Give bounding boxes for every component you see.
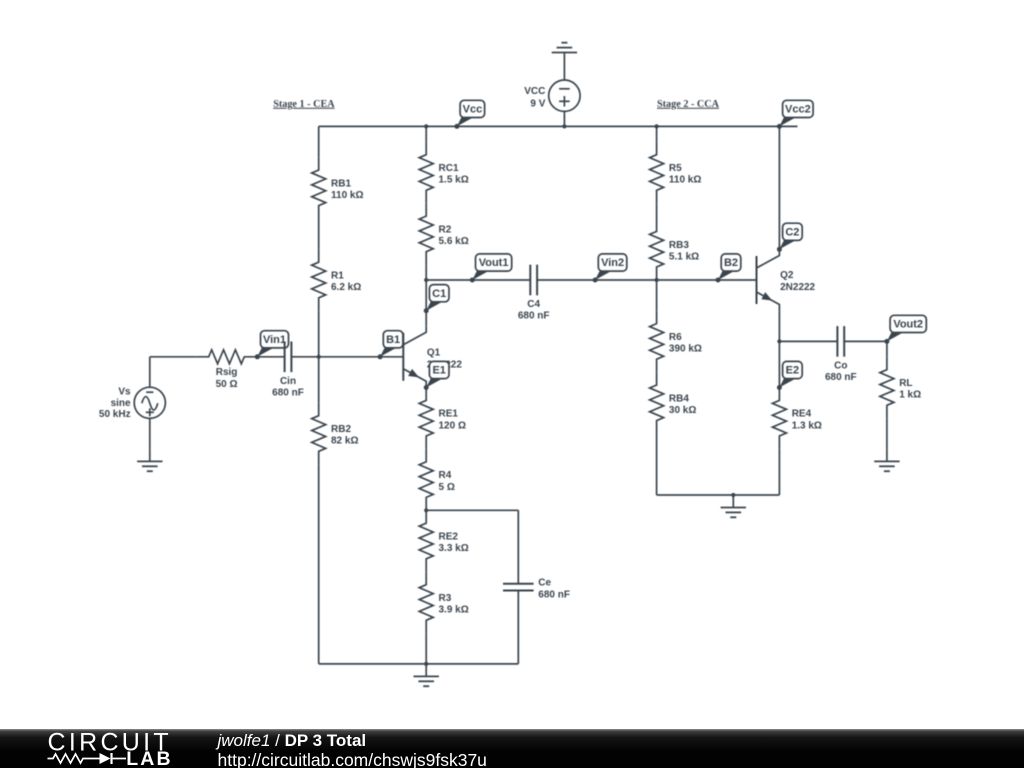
svg-text:3.9 kΩ: 3.9 kΩ	[439, 605, 469, 616]
svg-text:Vout2: Vout2	[893, 319, 923, 331]
svg-text:1 kΩ: 1 kΩ	[899, 390, 921, 401]
svg-text:Vs: Vs	[118, 387, 131, 398]
svg-text:http://circuitlab.com/chswjs9f: http://circuitlab.com/chswjs9fsk37u	[218, 750, 487, 768]
svg-text:Q2: Q2	[780, 270, 794, 281]
svg-text:110 kΩ: 110 kΩ	[669, 175, 702, 186]
svg-text:RE4: RE4	[792, 409, 812, 420]
svg-text:2N2222: 2N2222	[780, 282, 815, 293]
svg-text:50 kHz: 50 kHz	[99, 409, 131, 420]
svg-text:sine: sine	[111, 398, 131, 409]
svg-text:Vin1: Vin1	[263, 334, 286, 346]
svg-text:VCC: VCC	[524, 86, 545, 97]
svg-text:E2: E2	[786, 365, 799, 377]
svg-text:LAB: LAB	[126, 748, 172, 768]
svg-text:Co: Co	[834, 360, 847, 371]
svg-text:680 nF: 680 nF	[518, 311, 550, 322]
svg-text:Q1: Q1	[427, 347, 441, 358]
svg-text:RC1: RC1	[439, 163, 459, 174]
svg-text:390 kΩ: 390 kΩ	[669, 344, 702, 355]
svg-text:5.1 kΩ: 5.1 kΩ	[669, 252, 699, 263]
svg-text:Stage 2 - CCA: Stage 2 - CCA	[657, 99, 720, 110]
svg-text:680 nF: 680 nF	[538, 589, 570, 600]
svg-text:RL: RL	[899, 378, 912, 389]
svg-text:R1: R1	[331, 271, 344, 282]
svg-text:9 V: 9 V	[530, 98, 545, 109]
svg-text:6.2 kΩ: 6.2 kΩ	[331, 282, 361, 293]
svg-text:RE1: RE1	[439, 409, 459, 420]
svg-text:C4: C4	[527, 299, 540, 310]
svg-text:Vout1: Vout1	[479, 257, 509, 269]
svg-text:5.6 kΩ: 5.6 kΩ	[439, 236, 469, 247]
svg-text:82 kΩ: 82 kΩ	[331, 436, 358, 447]
svg-text:Vcc: Vcc	[463, 104, 483, 116]
svg-text:R4: R4	[439, 470, 452, 481]
svg-text:RB2: RB2	[331, 424, 351, 435]
svg-text:50 Ω: 50 Ω	[216, 379, 238, 390]
svg-text:Rsig: Rsig	[216, 367, 238, 378]
svg-text:1.3 kΩ: 1.3 kΩ	[792, 420, 822, 431]
svg-text:680 nF: 680 nF	[272, 387, 304, 398]
svg-text:RB3: RB3	[669, 240, 689, 251]
svg-text:Ce: Ce	[538, 578, 551, 589]
svg-text:110 kΩ: 110 kΩ	[331, 190, 364, 201]
svg-text:R6: R6	[669, 332, 682, 343]
svg-text:1.5 kΩ: 1.5 kΩ	[439, 175, 469, 186]
svg-text:RB1: RB1	[331, 178, 351, 189]
svg-text:E1: E1	[432, 365, 445, 377]
svg-text:Vcc2: Vcc2	[785, 104, 811, 116]
svg-text:jwolfe1 / DP 3 Total: jwolfe1 / DP 3 Total	[216, 731, 367, 750]
svg-text:RB4: RB4	[669, 393, 689, 404]
svg-text:B1: B1	[386, 334, 400, 346]
svg-text:Vin2: Vin2	[601, 257, 624, 269]
svg-text:3.3 kΩ: 3.3 kΩ	[439, 543, 469, 554]
svg-text:C1: C1	[432, 288, 446, 300]
svg-text:120 Ω: 120 Ω	[439, 420, 466, 431]
svg-text:680 nF: 680 nF	[825, 372, 857, 383]
svg-text:RE2: RE2	[439, 532, 459, 543]
svg-text:5 Ω: 5 Ω	[439, 482, 455, 493]
svg-text:B2: B2	[724, 257, 738, 269]
svg-text:C2: C2	[785, 227, 799, 239]
svg-text:Cin: Cin	[280, 376, 296, 387]
svg-text:R2: R2	[439, 224, 452, 235]
svg-text:Stage 1 - CEA: Stage 1 - CEA	[273, 99, 335, 110]
svg-text:30 kΩ: 30 kΩ	[669, 405, 696, 416]
svg-text:R3: R3	[439, 593, 452, 604]
svg-text:R5: R5	[669, 163, 682, 174]
